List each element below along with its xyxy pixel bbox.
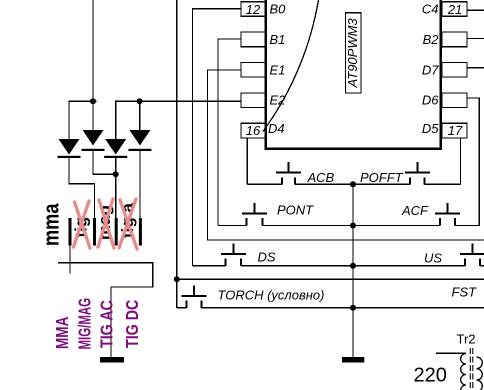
svg-text:B2: B2 xyxy=(423,32,440,47)
svg-text:D5: D5 xyxy=(422,121,439,136)
svg-text:TIG DC: TIG DC xyxy=(124,299,143,348)
svg-text:D4: D4 xyxy=(268,121,285,136)
svg-text:12: 12 xyxy=(246,2,261,17)
svg-text:mma: mma xyxy=(40,203,64,246)
svg-text:Tr2: Tr2 xyxy=(457,332,476,347)
svg-text:FST: FST xyxy=(452,285,478,300)
svg-text:16: 16 xyxy=(246,123,261,138)
svg-text:E1: E1 xyxy=(270,62,286,77)
svg-text:DS: DS xyxy=(258,250,276,265)
svg-text:TORCH (условно): TORCH (условно) xyxy=(218,288,325,303)
svg-text:POFFT: POFFT xyxy=(360,170,404,185)
svg-text:D7: D7 xyxy=(422,62,439,77)
svg-text:220: 220 xyxy=(414,365,447,387)
svg-text:17: 17 xyxy=(448,123,463,138)
svg-text:MIG/MAG: MIG/MAG xyxy=(76,298,95,350)
svg-text:B0: B0 xyxy=(270,2,287,17)
svg-text:D6: D6 xyxy=(422,93,439,108)
svg-text:B1: B1 xyxy=(270,32,286,47)
svg-text:ACF: ACF xyxy=(401,203,429,218)
svg-text:TIG AC: TIG AC xyxy=(98,300,117,348)
svg-text:C4: C4 xyxy=(422,2,439,17)
svg-text:MMA: MMA xyxy=(54,317,73,349)
svg-text:E2: E2 xyxy=(270,93,287,108)
svg-text:PONT: PONT xyxy=(277,203,314,218)
svg-text:21: 21 xyxy=(447,2,462,17)
svg-text:US: US xyxy=(424,251,442,266)
svg-text:AT90PWM3: AT90PWM3 xyxy=(345,18,360,89)
svg-text:ACB: ACB xyxy=(307,170,335,185)
